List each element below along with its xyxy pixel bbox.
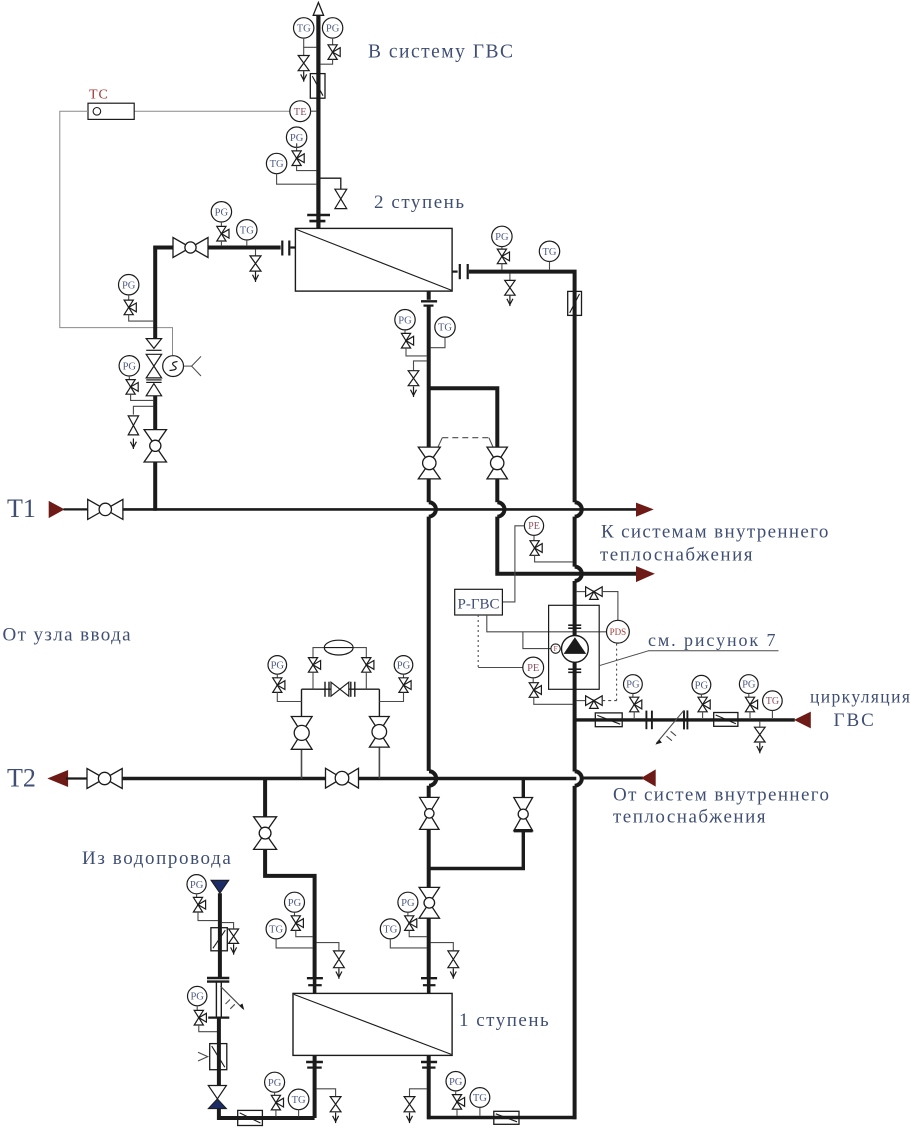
pipe HX2 outlet to corner xyxy=(469,272,575,292)
drain riser right xyxy=(404,1089,427,1123)
hop bypass right over T1 xyxy=(497,502,504,516)
thermometer TG preheat xyxy=(470,1088,490,1116)
orifice diaphragm xyxy=(324,640,353,655)
circulation arrow xyxy=(795,712,810,727)
svg-text:TG: TG xyxy=(473,1093,487,1104)
needle valve under PG inlet xyxy=(217,226,229,246)
TC capillary line xyxy=(60,111,173,355)
svg-text:TG: TG xyxy=(292,1095,306,1106)
PDS tap valve top xyxy=(576,587,618,620)
dashed linkage xyxy=(438,438,493,448)
drain branch hx1 right xyxy=(430,943,458,979)
svg-text:PG: PG xyxy=(271,660,285,671)
label T2 xyxy=(7,764,36,793)
svg-text:TG: TG xyxy=(766,696,779,707)
pipe heating down mid xyxy=(427,517,431,771)
drain diagonal circ xyxy=(655,711,683,745)
svg-text:TG: TG xyxy=(270,159,284,170)
pump discharge flange xyxy=(568,669,581,672)
riser HX1 bottom left xyxy=(306,1055,323,1118)
pipe heating to merge xyxy=(427,829,431,887)
air vent branch xyxy=(320,178,341,189)
svg-text:PDS: PDS xyxy=(610,627,627,637)
needle valve under PE2 xyxy=(529,678,573,704)
svg-text:От узла ввода: От узла ввода xyxy=(3,625,133,646)
hop bypass left over T1 xyxy=(429,502,436,516)
label to internal heating xyxy=(600,522,830,566)
ball valve left riser xyxy=(144,430,166,462)
PE1 to R-GVS line xyxy=(503,526,525,602)
flow meter DHW riser xyxy=(568,291,582,315)
ball valve bypass left xyxy=(418,447,440,479)
svg-text:2 ступень: 2 ступень xyxy=(374,192,466,213)
svg-text:PG: PG xyxy=(398,315,412,326)
thermometer TG circ xyxy=(763,691,783,718)
pipe HX2 outlet stub xyxy=(452,271,458,273)
label from input node xyxy=(3,625,133,646)
flange pair circ right xyxy=(684,710,687,729)
pressure gauge PG inlet xyxy=(211,202,231,227)
control valve flange lines xyxy=(146,380,161,383)
svg-text:см. рисунок 7: см. рисунок 7 xyxy=(648,630,777,650)
ball valve branch right xyxy=(514,798,533,831)
R-GVS dotted to PE2 xyxy=(478,615,523,668)
pipe DHW riser to T1 hop xyxy=(573,291,577,502)
needle valve PG preheat xyxy=(452,1095,464,1116)
svg-text:PG: PG xyxy=(288,898,302,909)
pipe bypass left down xyxy=(427,479,431,502)
svg-text:TG: TG xyxy=(240,225,254,236)
pipe below control valve xyxy=(153,396,157,430)
pressure gauge PG water2 xyxy=(188,986,207,1010)
needle valve PG circ3 xyxy=(745,697,757,718)
pipe heating drop xyxy=(427,306,431,448)
actuator fork symbol xyxy=(184,356,202,376)
drain valve circ xyxy=(755,722,766,754)
pipe through pump top xyxy=(573,605,577,636)
PG tap below control valve xyxy=(119,356,154,401)
needle valve PG orifice right xyxy=(379,678,411,702)
ball valve bypass riser left xyxy=(291,717,312,750)
pump enclosure xyxy=(549,605,600,689)
circulation pump xyxy=(562,636,589,663)
heat exchanger stage2 xyxy=(295,228,452,291)
circulation line xyxy=(575,718,795,721)
pipe DHW riser upper xyxy=(316,15,320,229)
riser HX1 bottom right xyxy=(421,1055,437,1119)
svg-text:PG: PG xyxy=(401,898,415,909)
svg-text:К системам внутреннего: К системам внутреннего xyxy=(601,522,830,543)
needle valve PG circ2 xyxy=(698,697,710,718)
needle valve PG water xyxy=(193,897,218,920)
T2 return stub xyxy=(582,777,643,780)
water meter cold line xyxy=(238,1110,263,1125)
thermometer TG outlet xyxy=(539,241,559,270)
T1 inlet arrow xyxy=(49,502,63,518)
svg-text:В систему ГВС: В систему ГВС xyxy=(368,42,515,63)
svg-text:TG: TG xyxy=(269,924,283,935)
shutoff valve navy xyxy=(208,1086,226,1109)
drain branch hx1 left xyxy=(316,943,344,979)
label from internal heating xyxy=(613,785,830,828)
svg-text:Т2: Т2 xyxy=(7,764,36,793)
pressure gauge PG circ1 xyxy=(624,675,643,698)
thermometer TG riser xyxy=(266,153,316,184)
svg-text:теплоснабжения: теплоснабжения xyxy=(600,545,754,566)
needle valve under PG outlet xyxy=(497,249,509,270)
orifice valve left xyxy=(308,658,320,690)
flow meter preheat xyxy=(494,1111,519,1124)
svg-text:От систем внутреннего: От систем внутреннего xyxy=(613,785,830,806)
T2 mid valve xyxy=(326,768,359,788)
pipe branch left elbow xyxy=(265,849,315,977)
pipe to heating supply corner xyxy=(497,517,637,574)
drain branch left xyxy=(128,406,153,449)
pressure gauge PG water xyxy=(187,875,206,898)
thermometer TG heat drop xyxy=(430,317,455,348)
thermometer TG top xyxy=(294,18,317,48)
needle valve under PG top xyxy=(320,45,340,64)
flow meter circ 1 xyxy=(595,713,622,727)
control valve seat top xyxy=(146,339,161,351)
orifice valve right xyxy=(362,658,374,690)
pressure gauge PG orifice left xyxy=(268,656,287,678)
needle valve under PE1 xyxy=(530,535,573,562)
svg-text:TG: TG xyxy=(297,23,311,34)
orifice assembly line xyxy=(302,688,380,690)
flange hx1 top left xyxy=(307,977,323,993)
hop DHW riser over supply xyxy=(575,567,582,581)
flange pair circ left xyxy=(646,711,652,730)
pressure sensor PE2 xyxy=(523,657,544,678)
svg-text:PG: PG xyxy=(123,361,137,372)
flow sensor F xyxy=(551,644,560,653)
needle valve PG water2 xyxy=(194,1010,217,1031)
orifice main valve xyxy=(325,682,355,697)
T1 supply arrow xyxy=(637,503,653,516)
svg-text:TG: TG xyxy=(543,247,557,258)
flow meter on riser xyxy=(310,74,325,99)
thermometer TG hx1 right xyxy=(380,919,427,948)
branch to right bypass xyxy=(429,388,498,447)
flange HX2 right outlet xyxy=(460,264,468,279)
cold water pipe lower xyxy=(217,1018,221,1086)
svg-text:теплоснабжения: теплоснабжения xyxy=(613,807,767,828)
svg-text:PG: PG xyxy=(190,880,204,891)
T2 outlet valve xyxy=(87,769,122,789)
svg-text:PЕ: PЕ xyxy=(528,521,540,532)
outlet arrow to DHW system xyxy=(313,3,323,16)
branch T2 left down xyxy=(263,779,267,817)
svg-text:циркуляция: циркуляция xyxy=(810,687,911,707)
R-GVS to PDS line xyxy=(487,615,607,632)
pressure gauge PG preheat xyxy=(446,1072,465,1095)
pressure gauge PG outlet xyxy=(492,226,512,249)
T2 header line xyxy=(122,777,577,780)
needle valve PG circ1 xyxy=(630,697,642,718)
bypass left riser xyxy=(301,689,303,778)
svg-text:PЕ: PЕ xyxy=(527,663,539,674)
drain valve under TG top xyxy=(298,47,309,81)
flange HX2 bottom xyxy=(421,301,437,305)
thermometer TG hx1 left xyxy=(266,919,313,948)
pressure gauge PG orifice right xyxy=(394,656,413,678)
heat exchanger stage1 xyxy=(293,993,452,1055)
hop DHW riser over T2 xyxy=(575,771,582,785)
svg-text:PG: PG xyxy=(397,660,411,671)
T2 return arrow xyxy=(642,770,655,786)
svg-text:TG: TG xyxy=(438,323,452,334)
control valve actuator xyxy=(163,356,184,377)
pipe HX2 inlet horizontal xyxy=(153,246,280,250)
pipe DHW riser to pump xyxy=(573,581,577,605)
thermometer TG inlet xyxy=(237,220,257,246)
R-GVS controller box xyxy=(455,589,503,615)
orifice impulse line xyxy=(313,648,366,659)
ball valve heating over T2b xyxy=(420,797,439,829)
svg-text:Т1: Т1 xyxy=(7,494,36,523)
pressure gauge PG cold line xyxy=(265,1072,285,1095)
pressure gauge PG circ3 xyxy=(739,675,758,698)
ball valve bypass riser right xyxy=(369,717,389,748)
branch T2 right down xyxy=(522,779,525,798)
svg-text:ГВС: ГВС xyxy=(834,710,876,731)
svg-text:Р-ГВС: Р-ГВС xyxy=(457,596,499,612)
PDS tap valve bottom xyxy=(576,643,616,708)
pressure gauge PG heat drop xyxy=(395,310,415,334)
flange HX2 left inlet xyxy=(282,241,295,256)
svg-text:PG: PG xyxy=(626,680,640,691)
ball valve HX2 inlet xyxy=(173,238,208,258)
svg-text:PG: PG xyxy=(268,1078,282,1089)
T1 header line xyxy=(123,508,637,511)
T1 line to valve xyxy=(64,508,88,510)
pipe left riser down xyxy=(153,246,157,339)
temperature sensor TE xyxy=(134,101,316,122)
pipe through pump bottom xyxy=(573,662,577,771)
pipe bypass right down xyxy=(495,479,499,502)
ball valve bypass right xyxy=(487,447,507,479)
needle valve PG hx1 right xyxy=(405,916,427,937)
needle valve under PG riser xyxy=(292,151,317,171)
preheat return line xyxy=(427,1116,576,1120)
label TC xyxy=(89,88,109,103)
needle valve PG cold line xyxy=(271,1095,283,1116)
branch to F sensor xyxy=(523,632,551,649)
needle valve PG hx1 left xyxy=(291,916,313,937)
main valve HX1 inlet xyxy=(419,887,439,918)
needle valve PG orifice left xyxy=(273,678,302,702)
TC controller box xyxy=(88,103,134,119)
hop DHW riser over T1 xyxy=(575,502,582,516)
thermometer TG cold line xyxy=(288,1089,309,1116)
label T1 xyxy=(7,494,36,523)
svg-text:ТС: ТС xyxy=(89,88,109,103)
pipe HX1 inlet xyxy=(427,918,431,977)
drain under inlet pipe xyxy=(250,249,261,282)
svg-text:TG: TG xyxy=(383,924,397,935)
svg-text:Из водопровода: Из водопровода xyxy=(82,848,232,869)
svg-text:ТЕ: ТЕ xyxy=(294,107,307,118)
T1 inlet valve xyxy=(88,499,123,519)
spool piece circ xyxy=(652,719,684,721)
check valve xyxy=(198,1044,227,1070)
pipe branch right elbow xyxy=(430,831,523,869)
pipe DHW riser lower xyxy=(573,786,577,1119)
label circulation xyxy=(810,687,911,732)
hop heating over T2 xyxy=(429,771,436,785)
cold water inlet symbol xyxy=(211,880,229,893)
water meter body xyxy=(208,982,229,1018)
label from water supply xyxy=(82,848,232,869)
drain under outlet pipe xyxy=(505,273,515,306)
heating supply arrow thick xyxy=(637,567,654,581)
label to DHW system xyxy=(368,42,515,63)
label see figure 7 xyxy=(648,630,779,651)
pressure gauge PG regulator xyxy=(119,275,139,300)
pipe heating below T2 hop xyxy=(427,786,431,798)
union flange water xyxy=(207,978,229,982)
bypass right riser xyxy=(378,689,380,778)
svg-text:PG: PG xyxy=(290,133,304,144)
T2 line to valve xyxy=(66,777,87,779)
pipe DHW riser mid xyxy=(573,517,577,567)
pressure sensor PE1 xyxy=(524,516,543,535)
needle valve under PG regulator xyxy=(124,300,153,321)
flange pair riser to HX2 xyxy=(307,215,330,221)
drain branch heat drop xyxy=(408,361,427,397)
ball valve branch left xyxy=(254,817,277,850)
label stage2 xyxy=(374,192,466,213)
flow meter circ 2 xyxy=(714,713,738,727)
pressure gauge PG top xyxy=(322,18,342,45)
svg-text:PG: PG xyxy=(215,207,229,218)
svg-text:PG: PG xyxy=(695,680,709,691)
pressure gauge PG circ2 xyxy=(692,675,711,697)
strainer filter xyxy=(211,928,227,951)
svg-text:PG: PG xyxy=(122,280,136,291)
T2 outlet arrow xyxy=(49,771,68,787)
pressure gauge PG hx1 right xyxy=(398,892,418,916)
drain water right xyxy=(222,923,239,955)
figure leader line xyxy=(599,651,648,666)
pipe to T1 junction xyxy=(153,462,157,511)
drain diagonal water xyxy=(220,986,244,1010)
svg-text:PG: PG xyxy=(190,992,204,1003)
cold water corner xyxy=(219,1109,315,1118)
svg-text:PG: PG xyxy=(495,232,509,243)
cold water pipe upper xyxy=(218,893,222,978)
control valve seat bottom xyxy=(146,384,161,396)
pressure gauge PG hx1 left xyxy=(285,892,305,916)
svg-text:PG: PG xyxy=(449,1077,463,1088)
drain riser left xyxy=(316,1089,341,1123)
control valve body xyxy=(146,354,161,378)
needle valve under PG heat drop xyxy=(401,333,427,356)
pump suction flange xyxy=(568,625,581,628)
svg-text:1 ступень: 1 ступень xyxy=(459,1010,550,1031)
svg-text:F: F xyxy=(554,645,558,653)
svg-text:PG: PG xyxy=(742,680,756,691)
svg-text:PG: PG xyxy=(326,23,340,34)
differential pressure PDS xyxy=(607,620,630,643)
label stage1 xyxy=(459,1010,550,1031)
pipe HX2 bottom stub xyxy=(427,291,431,300)
air vent valve xyxy=(335,189,347,208)
pressure gauge PG riser xyxy=(286,127,306,151)
flange hx1 top right xyxy=(421,977,437,993)
